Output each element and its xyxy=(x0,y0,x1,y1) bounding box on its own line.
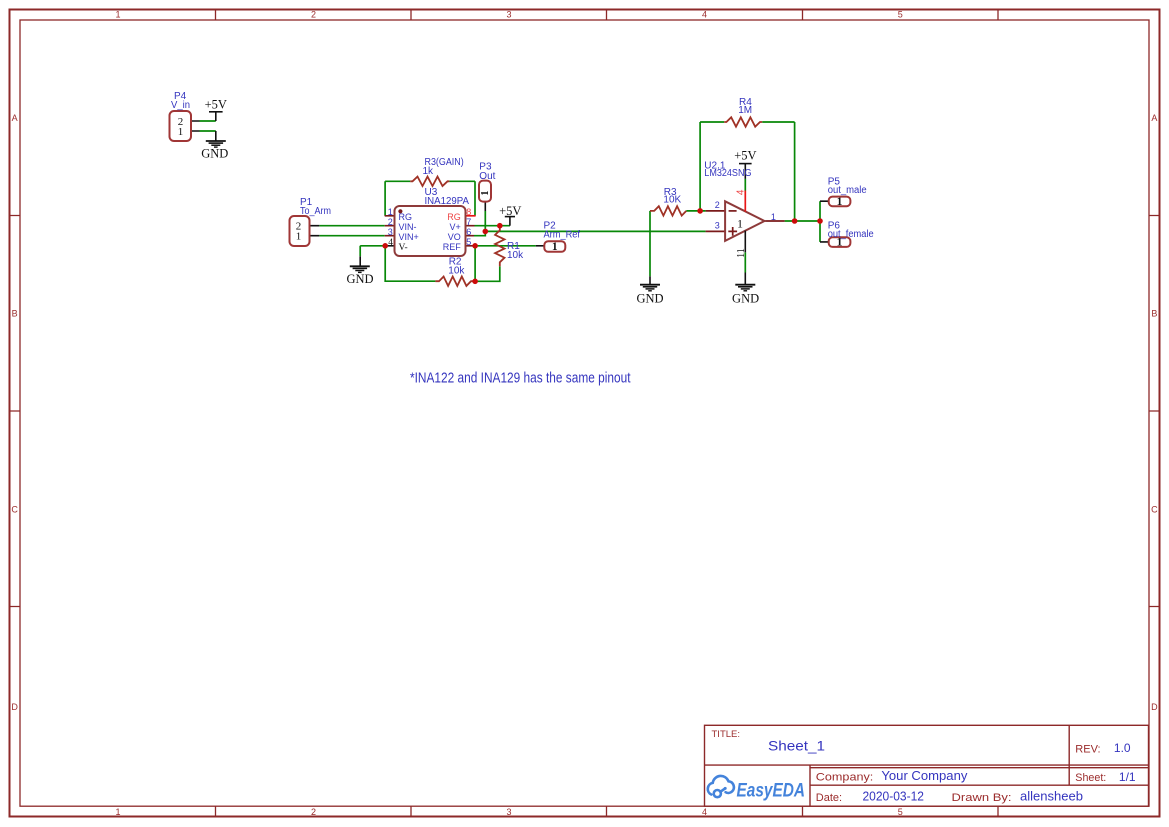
svg-text:1: 1 xyxy=(552,241,558,253)
svg-text:Arm_Ref: Arm_Ref xyxy=(544,229,581,240)
svg-text:7: 7 xyxy=(466,217,471,227)
svg-text:1: 1 xyxy=(178,126,184,138)
svg-text:*INA122 and INA129 has the sam: *INA122 and INA129 has the same pinout xyxy=(410,370,631,386)
svg-text:2: 2 xyxy=(715,200,720,210)
svg-text:Out: Out xyxy=(479,171,495,182)
svg-text:1/1: 1/1 xyxy=(1119,770,1136,784)
svg-text:3: 3 xyxy=(388,227,393,237)
svg-text:10K: 10K xyxy=(663,194,681,205)
svg-text:out_female: out_female xyxy=(828,229,874,240)
svg-text:2: 2 xyxy=(311,9,316,19)
svg-text:1.0: 1.0 xyxy=(1114,741,1131,755)
svg-text:1: 1 xyxy=(115,9,120,19)
svg-text:GND: GND xyxy=(201,147,228,161)
svg-text:1: 1 xyxy=(837,196,843,208)
svg-text:4: 4 xyxy=(736,189,747,195)
svg-text:1k: 1k xyxy=(423,166,435,177)
svg-text:GND: GND xyxy=(636,292,663,306)
svg-text:5: 5 xyxy=(466,237,471,247)
svg-text:TITLE:: TITLE: xyxy=(712,729,741,740)
svg-text:INA129PA: INA129PA xyxy=(425,196,470,207)
svg-text:To_Arm: To_Arm xyxy=(300,206,331,217)
svg-text:Sheet:: Sheet: xyxy=(1075,772,1106,784)
svg-text:3: 3 xyxy=(506,807,511,817)
svg-text:10k: 10k xyxy=(507,250,524,261)
svg-text:out_male: out_male xyxy=(828,185,867,196)
svg-text:1M: 1M xyxy=(738,105,752,116)
svg-text:1: 1 xyxy=(737,217,743,231)
svg-text:2: 2 xyxy=(388,217,393,227)
svg-text:GND: GND xyxy=(732,292,759,306)
svg-text:RG: RG xyxy=(399,212,413,222)
svg-text:Sheet_1: Sheet_1 xyxy=(768,738,825,754)
svg-text:D: D xyxy=(1151,702,1158,712)
svg-text:Your Company: Your Company xyxy=(881,769,968,783)
svg-text:1: 1 xyxy=(296,231,302,243)
svg-text:5: 5 xyxy=(898,9,903,19)
svg-text:LM324SNG: LM324SNG xyxy=(704,168,751,179)
svg-text:2020-03-12: 2020-03-12 xyxy=(863,790,925,804)
svg-text:Date:: Date: xyxy=(816,792,842,804)
svg-text:5: 5 xyxy=(898,807,903,817)
svg-text:V+: V+ xyxy=(450,222,461,232)
svg-text:B: B xyxy=(12,308,18,318)
svg-text:VIN-: VIN- xyxy=(399,222,417,232)
svg-text:+5V: +5V xyxy=(734,148,756,162)
svg-text:4: 4 xyxy=(388,238,393,248)
svg-text:+5V: +5V xyxy=(499,204,521,218)
svg-text:11: 11 xyxy=(736,248,747,258)
svg-text:A: A xyxy=(12,113,18,123)
svg-text:GND: GND xyxy=(346,272,373,286)
svg-text:V-: V- xyxy=(399,243,408,253)
svg-text:D: D xyxy=(11,702,18,712)
svg-text:3: 3 xyxy=(715,221,720,231)
svg-text:1: 1 xyxy=(771,212,776,222)
svg-text:C: C xyxy=(11,504,18,514)
svg-text:EasyEDA: EasyEDA xyxy=(737,781,806,802)
svg-text:B: B xyxy=(1151,308,1157,318)
svg-text:1: 1 xyxy=(115,807,120,817)
svg-text:1: 1 xyxy=(480,190,491,195)
svg-text:3: 3 xyxy=(506,9,511,19)
svg-text:Drawn By:: Drawn By: xyxy=(952,792,1012,804)
svg-text:+5V: +5V xyxy=(205,97,227,111)
svg-text:RG: RG xyxy=(447,212,461,222)
svg-text:4: 4 xyxy=(702,807,707,817)
svg-text:10k: 10k xyxy=(448,265,465,276)
svg-text:REF: REF xyxy=(443,242,462,252)
svg-text:6: 6 xyxy=(466,227,471,237)
svg-text:2: 2 xyxy=(311,807,316,817)
svg-text:8: 8 xyxy=(466,207,471,217)
svg-text:Company:: Company: xyxy=(816,772,874,784)
svg-text:1: 1 xyxy=(388,207,393,217)
svg-text:A: A xyxy=(1151,113,1157,123)
svg-text:VO: VO xyxy=(448,232,461,242)
svg-text:1: 1 xyxy=(837,237,843,249)
svg-text:V_in: V_in xyxy=(171,100,190,111)
svg-text:allensheeb: allensheeb xyxy=(1020,790,1083,804)
svg-text:C: C xyxy=(1151,504,1158,514)
svg-text:REV:: REV: xyxy=(1075,744,1100,756)
svg-text:VIN+: VIN+ xyxy=(399,232,419,242)
svg-text:4: 4 xyxy=(702,9,707,19)
